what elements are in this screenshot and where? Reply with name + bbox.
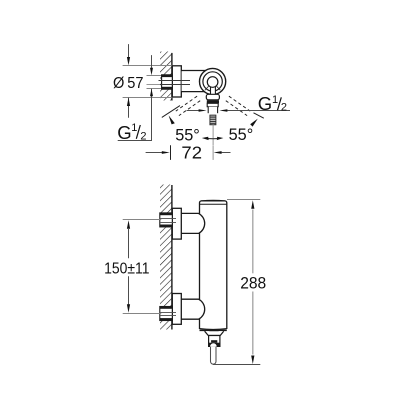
svg-text:Ø 57: Ø 57 bbox=[113, 75, 144, 92]
svg-text:1: 1 bbox=[131, 122, 137, 134]
svg-text:G: G bbox=[117, 122, 131, 143]
svg-text:G: G bbox=[258, 93, 272, 114]
svg-text:150±11: 150±11 bbox=[104, 261, 149, 278]
svg-text:2: 2 bbox=[140, 130, 146, 142]
svg-text:55°: 55° bbox=[229, 126, 254, 144]
svg-text:2: 2 bbox=[281, 102, 287, 114]
svg-text:72: 72 bbox=[181, 143, 202, 163]
svg-text:288: 288 bbox=[240, 274, 266, 293]
svg-text:1: 1 bbox=[272, 94, 278, 106]
